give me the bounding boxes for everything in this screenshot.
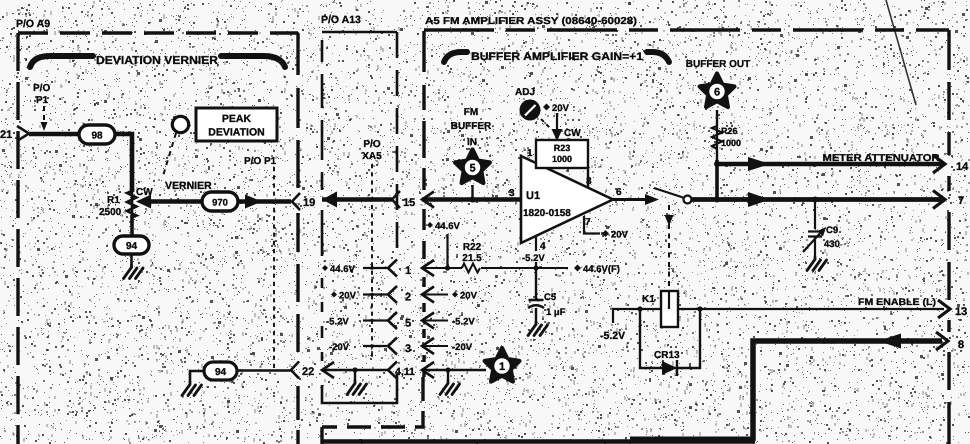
- wire code oval 970: [202, 192, 238, 211]
- node junction star5 tap: [470, 197, 476, 203]
- svg-text:P1: P1: [36, 95, 49, 106]
- svg-text:CR13: CR13: [654, 350, 680, 361]
- svg-text:FM ENABLE (L): FM ENABLE (L): [858, 297, 936, 308]
- diode CR13: [640, 309, 700, 368]
- svg-text:1000: 1000: [552, 154, 572, 164]
- wire node 19 to 15: [322, 197, 392, 202]
- svg-text:970: 970: [212, 198, 228, 209]
- svg-text:15: 15: [403, 197, 415, 209]
- svg-text:7: 7: [585, 217, 591, 228]
- resistor R23 1000 (gain adjust): [536, 140, 588, 187]
- svg-text:P/O P1: P/O P1: [244, 156, 277, 167]
- svg-text:-20V: -20V: [452, 342, 473, 353]
- svg-text:BUFFER AMPLIFIER GAIN=+1: BUFFER AMPLIFIER GAIN=+1: [471, 51, 643, 63]
- svg-text:1000: 1000: [721, 138, 741, 148]
- wire code oval 94 (node 22): [204, 362, 237, 380]
- svg-text:94: 94: [126, 241, 138, 252]
- svg-text:XA5: XA5: [362, 151, 382, 162]
- arrow +20V into R23 (CW): [556, 113, 558, 136]
- svg-text:-5.2V: -5.2V: [326, 317, 349, 328]
- svg-text:44.6V: 44.6V: [435, 221, 460, 232]
- connector pins 4,11 bracket: [388, 362, 397, 379]
- svg-text:ADJ: ADJ: [515, 87, 535, 98]
- svg-text:94: 94: [215, 367, 227, 378]
- svg-text:44.6V: 44.6V: [330, 264, 355, 275]
- wire code oval 98: [79, 125, 115, 144]
- dashed line P/O P1 to node 21 wire: [43, 106, 45, 127]
- svg-text:VERNIER: VERNIER: [165, 180, 212, 192]
- svg-text:R22: R22: [463, 242, 482, 253]
- knob circle (front panel): [172, 116, 188, 132]
- svg-text:20V: 20V: [339, 291, 357, 302]
- box PEAK DEVIATION: [196, 108, 277, 141]
- svg-text:PEAK: PEAK: [222, 113, 252, 125]
- svg-text:14: 14: [956, 161, 969, 173]
- bottom heavy wire: [322, 439, 755, 444]
- wire node 15 to U1 pin 3: [422, 197, 521, 202]
- ground: [347, 381, 367, 395]
- svg-text:-20V: -20V: [329, 342, 350, 353]
- svg-text:98: 98: [91, 131, 103, 142]
- junction meter branch: [714, 161, 720, 167]
- capacitor C5 1uF: [528, 268, 566, 322]
- svg-text:5: 5: [405, 318, 411, 330]
- svg-text:21: 21: [0, 129, 12, 141]
- R1 wiper arrow: [136, 195, 151, 209]
- dashed line XA5: [371, 164, 373, 360]
- svg-text:22: 22: [302, 366, 314, 378]
- resistor R26 1000: [716, 110, 718, 164]
- ADJ control: [515, 87, 541, 121]
- wire pins 4,11 to star 1: [422, 369, 486, 371]
- svg-text:21.5: 21.5: [462, 253, 482, 264]
- assembly border P/O A9 (dashed box): [18, 33, 298, 444]
- dashed link ADJ to R23: [541, 119, 550, 128]
- svg-text:DEVIATION: DEVIATION: [208, 127, 264, 139]
- svg-text:IN: IN: [467, 137, 477, 148]
- svg-text:FM: FM: [464, 107, 478, 118]
- svg-text:1: 1: [527, 148, 533, 159]
- dashed mechanical link knob to R1 CW: [163, 133, 176, 176]
- ground: [440, 381, 460, 395]
- node 19 bracket: [292, 193, 300, 210]
- ground below R1: [124, 265, 144, 279]
- connector row pin 2 (+20V): [331, 291, 357, 302]
- wire node 22 to pins 4,11: [322, 369, 389, 371]
- wire +44.6V to row1: [446, 234, 448, 268]
- svg-text:3: 3: [405, 343, 411, 355]
- svg-text:P/O: P/O: [33, 83, 50, 94]
- svg-text:8: 8: [958, 339, 964, 351]
- svg-text:P/O A9: P/O A9: [16, 18, 50, 30]
- svg-text:5: 5: [469, 163, 475, 175]
- svg-text:20V: 20V: [460, 291, 478, 302]
- junction ground tap: [445, 367, 450, 372]
- wire oval94 to ground: [130, 254, 133, 265]
- METER ATTENUATOR wire to node 14: [715, 162, 944, 167]
- label +20V (ADJ supply): [543, 103, 570, 114]
- svg-text:2500: 2500: [99, 207, 122, 218]
- svg-text:13: 13: [955, 306, 967, 318]
- svg-text:1: 1: [499, 361, 505, 373]
- svg-text:1 μF: 1 μF: [546, 307, 566, 318]
- resistor R22 21.5: [462, 264, 480, 273]
- node 8 wire: [753, 341, 942, 441]
- assembly border A5 (dashed box): [322, 30, 949, 444]
- wire switch to node 7: [691, 197, 944, 202]
- svg-text:7: 7: [958, 195, 964, 207]
- capacitor C9 430 (feedthrough): [812, 197, 818, 203]
- svg-text:44.6V(F): 44.6V(F): [583, 264, 620, 275]
- svg-text:6: 6: [714, 87, 720, 99]
- svg-text:-5.2V: -5.2V: [452, 317, 475, 328]
- junction pin4 / C5: [533, 265, 538, 270]
- title DEVIATION VERNIER with swashes: [30, 56, 285, 67]
- svg-text:P/O A13: P/O A13: [321, 14, 361, 26]
- arrow into pins 4,11: [422, 362, 434, 378]
- svg-text:METER ATTENUATOR: METER ATTENUATOR: [823, 153, 941, 164]
- wire -5.2V to K1: [613, 309, 944, 323]
- label +44.6V feed: [427, 221, 460, 232]
- wire R26 to output node: [715, 160, 719, 201]
- wire oval 94 to node 22: [237, 369, 291, 372]
- svg-text:-5.2V: -5.2V: [600, 330, 625, 342]
- label +44.6V(F): [574, 264, 620, 275]
- svg-text:K1: K1: [642, 294, 655, 305]
- svg-text:3: 3: [509, 188, 515, 199]
- svg-text:BUFFER: BUFFER: [451, 121, 492, 132]
- star node 5: [455, 150, 490, 184]
- node 22 bracket: [291, 362, 299, 379]
- svg-text:R23: R23: [554, 143, 571, 153]
- ground at node 22 wire: [182, 382, 202, 396]
- switch blade (relay contact): [654, 188, 683, 198]
- title BUFFER AMPLIFIER GAIN=+1 with swashes: [444, 52, 669, 62]
- wire node 21 to R1: [29, 134, 132, 192]
- op-amp output wire: [613, 198, 652, 201]
- svg-text:A5 FM AMPLIFIER ASSY (08640-60: A5 FM AMPLIFIER ASSY (08640-60028): [425, 16, 637, 27]
- svg-text:4,11: 4,11: [395, 366, 415, 378]
- dashed line P/O P1 vertical: [273, 167, 275, 369]
- wire wiper to node 19: [149, 199, 291, 204]
- svg-text:20V: 20V: [552, 103, 570, 114]
- svg-text:CW: CW: [564, 128, 581, 139]
- wire oval 94 to ground: [190, 371, 204, 382]
- svg-text:6: 6: [616, 187, 622, 198]
- svg-text:P/O: P/O: [363, 139, 380, 150]
- svg-text:4: 4: [540, 241, 546, 252]
- star node 1: [485, 348, 520, 382]
- potentiometer R1 2500: [127, 191, 137, 217]
- wire row1 through R22: [422, 267, 568, 269]
- star node 6: [700, 74, 735, 108]
- svg-text:C5: C5: [544, 292, 557, 303]
- connector row pin 1 (+44.6V): [322, 264, 355, 275]
- dashed actuator link switch to K1: [668, 205, 670, 291]
- svg-text:BUFFER OUT: BUFFER OUT: [686, 59, 750, 70]
- svg-text:2: 2: [405, 292, 411, 304]
- svg-text:U1: U1: [526, 190, 540, 202]
- svg-text:20V: 20V: [611, 230, 629, 241]
- op-amp U1: [521, 156, 613, 243]
- svg-text:1: 1: [405, 265, 411, 277]
- svg-text:R26: R26: [721, 126, 738, 136]
- arrow into node 22: [322, 362, 334, 378]
- scan artifact diagonal line: [886, 0, 916, 105]
- svg-text:430: 430: [824, 239, 840, 250]
- svg-text:1820-0158: 1820-0158: [523, 208, 571, 219]
- assembly border P/O A13 (dashed box): [322, 32, 397, 403]
- svg-text:19: 19: [303, 197, 315, 209]
- svg-text:R1: R1: [107, 195, 120, 206]
- junction ground tap: [352, 367, 357, 372]
- xa5 crossing ticks: [370, 266, 374, 348]
- oval 94 below R1: [114, 236, 149, 254]
- svg-text:C9: C9: [826, 225, 838, 236]
- svg-text:-5.2V: -5.2V: [522, 253, 545, 264]
- svg-text:DEVIATION VERNIER: DEVIATION VERNIER: [96, 55, 219, 67]
- arrow on vernier wire: [245, 195, 262, 209]
